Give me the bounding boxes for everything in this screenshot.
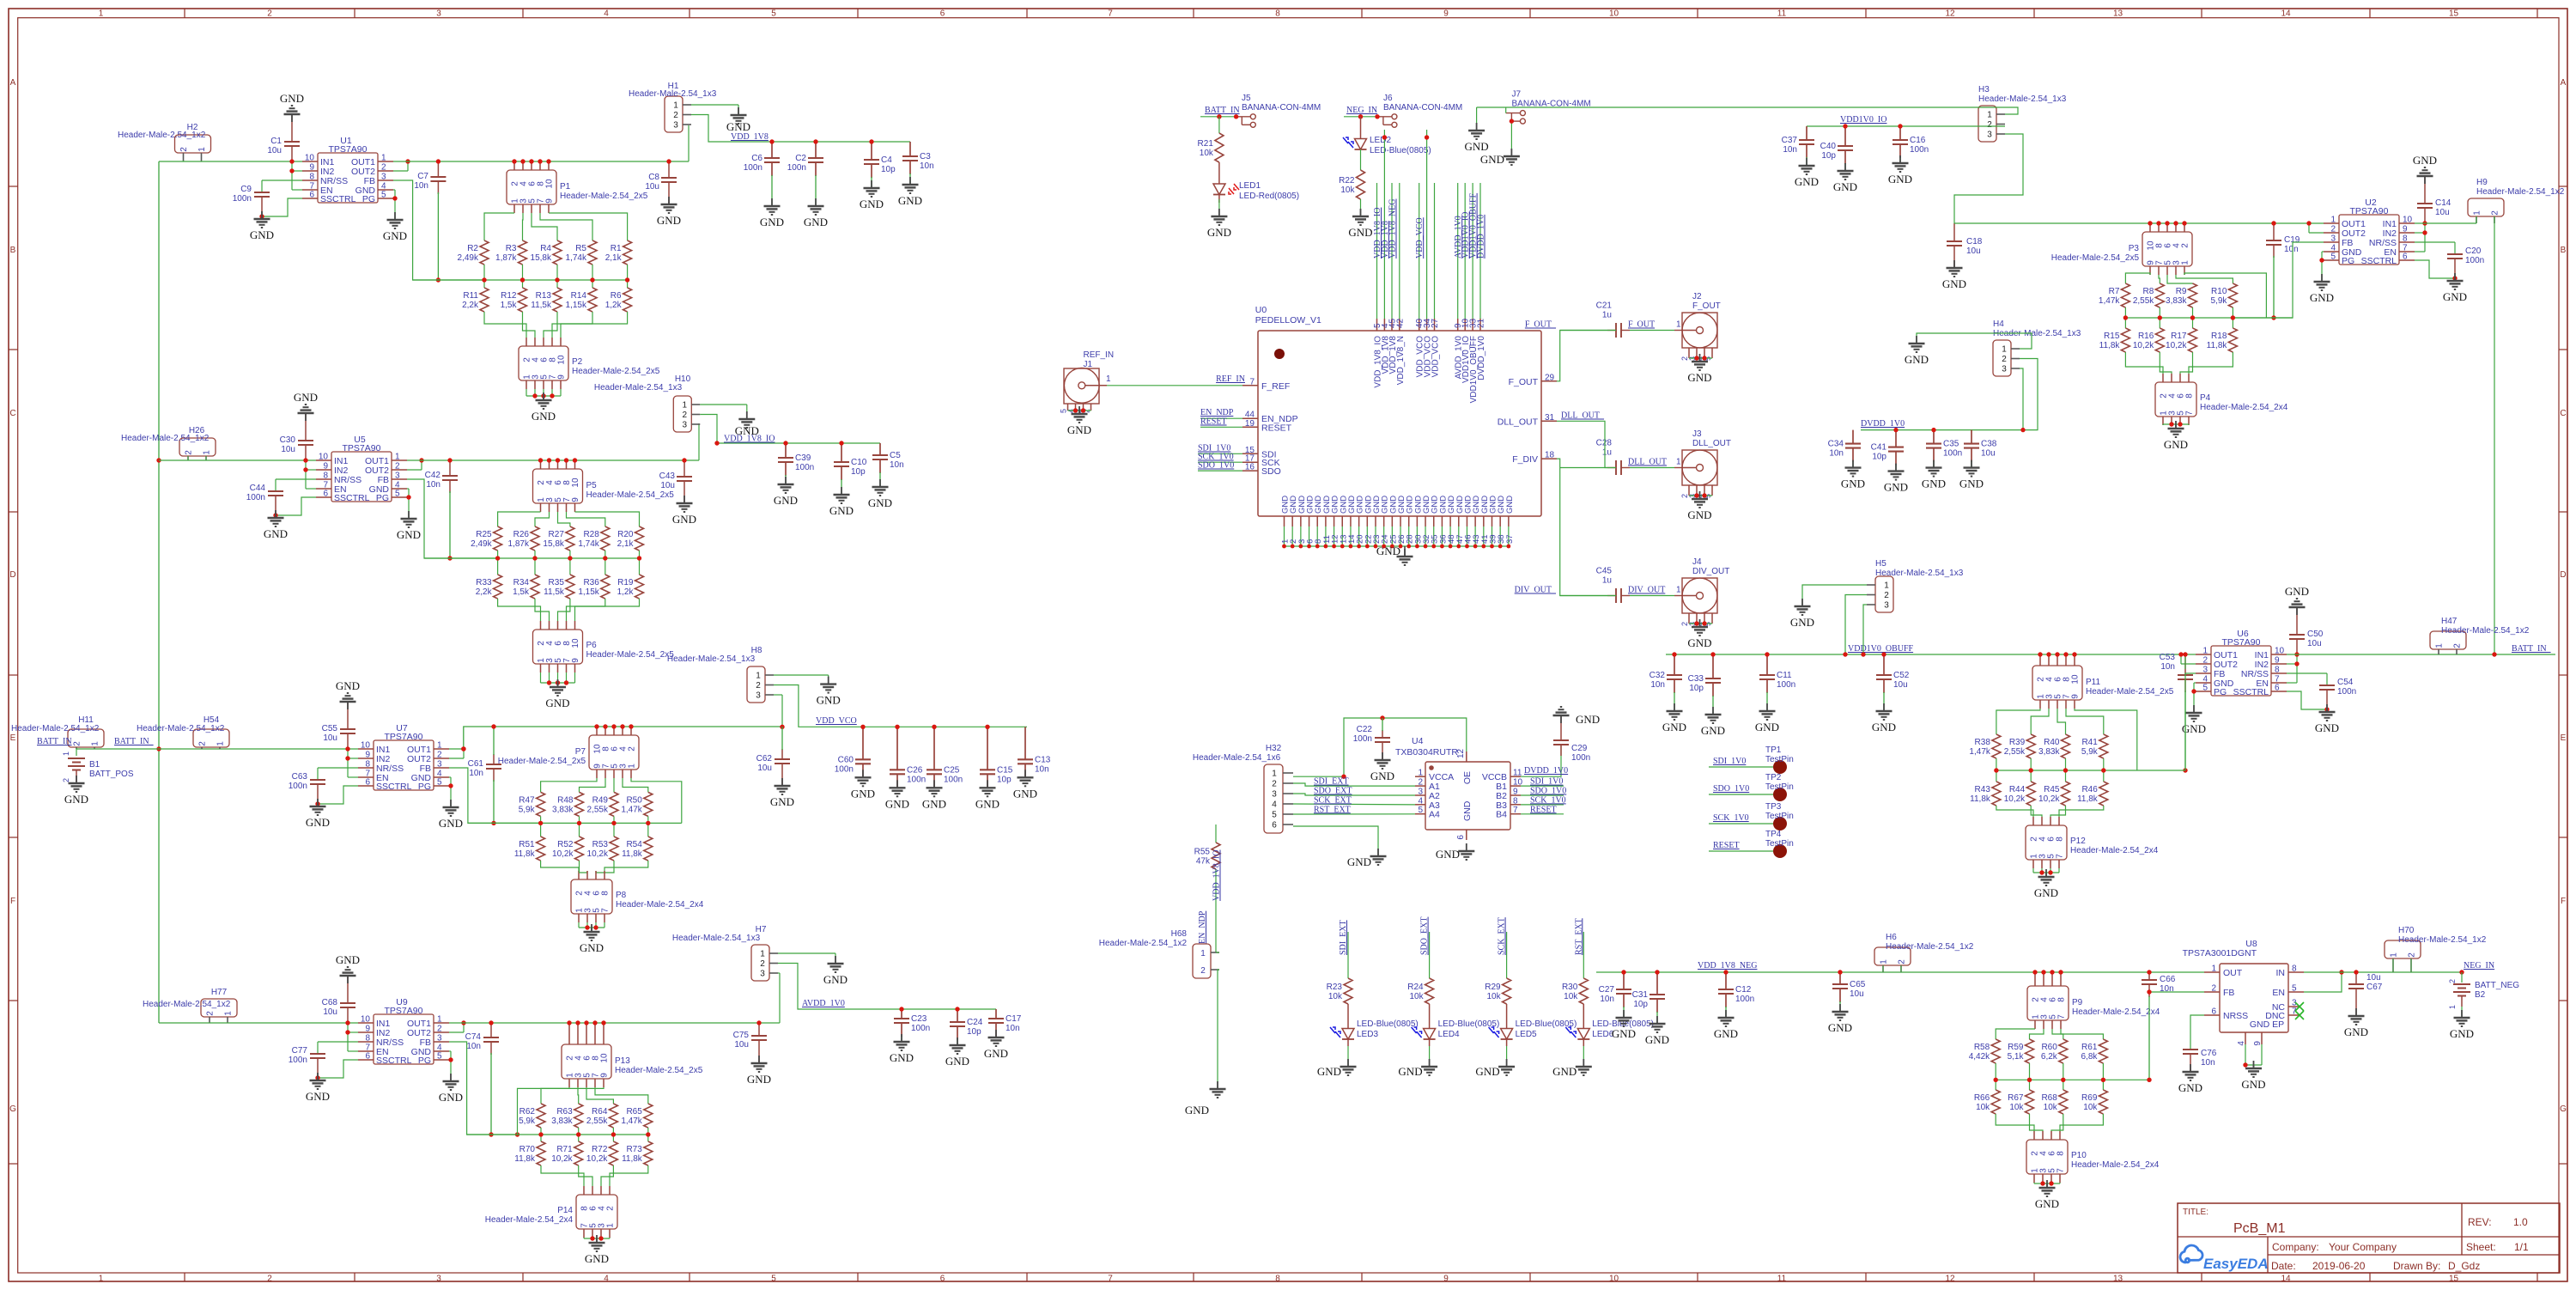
junction [2183,652,2187,656]
wire [2052,1020,2063,1039]
resistor R73 [622,1141,653,1165]
junction [2027,1078,2032,1082]
svg-text:GND: GND [1067,423,1091,436]
capacitor C40 10p [1820,126,1857,193]
svg-text:1,74k: 1,74k [566,253,587,263]
resistor R29 10k [1485,978,1510,1004]
wire [276,479,316,491]
svg-text:Your Company: Your Company [2329,1241,2397,1253]
svg-text:29: 29 [1545,373,1555,382]
svg-text:1u: 1u [1602,448,1612,458]
ground [532,392,556,423]
wire [613,816,615,837]
svg-text:1,47k: 1,47k [1969,747,1990,757]
svg-text:F_OUT_: F_OUT_ [1525,320,1557,330]
svg-text:C10: C10 [851,458,867,467]
ground [1687,619,1711,649]
wire [605,551,606,575]
svg-text:10: 10 [2071,674,2081,685]
capacitor C2 100n [787,142,828,228]
wire [575,599,640,630]
net label SCK_1V0 [1198,453,1234,462]
wire [2163,417,2189,425]
svg-text:1: 1 [2002,345,2007,355]
svg-text:GND: GND [823,973,848,986]
svg-text:VDD_1V8: VDD_1V8 [731,132,769,142]
svg-text:SCK_EXT: SCK_EXT [1314,795,1352,805]
wire [484,312,526,346]
header P12 Header-Male-2.54_2x4 [2026,825,2159,860]
svg-text:SDI_1V0: SDI_1V0 [1713,757,1746,766]
capacitor C5 10n [868,443,904,509]
svg-text:1: 1 [673,101,678,111]
wire [2060,972,2062,986]
svg-text:3: 3 [673,121,678,131]
wire [778,953,835,964]
wire [1347,932,1349,978]
svg-text:11,8k: 11,8k [514,849,536,859]
junction [899,1007,903,1011]
svg-text:GND: GND [760,216,784,228]
svg-text:10n: 10n [466,1042,481,1051]
svg-text:3,83k: 3,83k [551,1117,573,1126]
junction [568,556,572,560]
svg-text:TPS7A90: TPS7A90 [385,1006,423,1016]
svg-text:GND: GND [280,92,304,105]
svg-text:GND: GND [1701,724,1725,737]
svg-text:C19: C19 [2284,235,2300,245]
svg-text:11,8k: 11,8k [2207,341,2228,350]
wire [2194,683,2196,713]
svg-text:LED3: LED3 [1357,1030,1378,1039]
svg-text:GND: GND [1872,721,1896,733]
wire [535,503,550,526]
wire [1510,121,1512,155]
svg-text:R15: R15 [2104,332,2120,341]
svg-text:9: 9 [571,658,580,663]
wire [1996,758,1997,782]
svg-text:B: B [2561,246,2567,255]
svg-text:GND: GND [1795,175,1819,188]
net label REF_IN [1216,374,1245,384]
svg-text:10u: 10u [1893,680,1908,690]
svg-text:SDI_1V0: SDI_1V0 [1530,777,1563,787]
header P8 Header-Male-2.54_2x4 [571,879,704,914]
svg-text:1: 1 [1880,959,1889,964]
svg-text:H47: H47 [2441,617,2458,626]
svg-text:C8: C8 [648,173,659,182]
junction [769,139,774,143]
wire feedback mid node [2125,317,2293,319]
ground [585,1235,609,1265]
ground [280,92,304,122]
wire [498,503,541,526]
capacitor C39 100n [774,443,814,507]
ground [383,212,407,242]
svg-text:1,87k: 1,87k [495,253,517,263]
svg-text:D: D [2560,570,2566,580]
capacitor C33 10p [1688,654,1725,737]
svg-text:11,5k: 11,5k [531,301,552,310]
wire [1521,794,1564,796]
svg-text:GND: GND [250,228,274,241]
svg-text:C37: C37 [1782,136,1798,145]
svg-text:8: 8 [1275,9,1280,19]
junction [482,277,486,282]
wire [548,161,550,170]
svg-text:10: 10 [319,453,329,462]
svg-text:C77: C77 [292,1046,308,1056]
wire [580,861,588,879]
junction [611,1132,616,1136]
junction [611,724,616,728]
junction [590,277,594,282]
resistor R72 [586,1141,617,1165]
svg-text:6: 6 [940,9,945,19]
svg-text:GND: GND [2315,721,2339,734]
svg-text:GND: GND [922,797,946,810]
svg-text:VDD1V0_IO: VDD1V0_IO [1840,115,1886,125]
wire IN bus right to H47 [2287,654,2555,655]
wire [2057,654,2058,666]
svg-text:2: 2 [1200,966,1206,976]
junction [646,1132,650,1136]
wire DLL_OUT [1557,421,1616,467]
capacitor C37 10n [1782,126,1819,188]
svg-text:C38: C38 [1981,440,1997,449]
svg-text:R55: R55 [1194,848,1211,857]
junction [2173,221,2178,225]
junction [1341,775,1346,779]
svg-text:GND: GND [1922,478,1946,490]
svg-text:P8: P8 [616,891,627,900]
regulator U9 TPS7A90 [358,997,449,1066]
header P6 Header-Male-2.54_2x5 [533,630,675,664]
svg-text:VDD_VCO: VDD_VCO [1431,336,1441,378]
svg-text:GND: GND [1942,277,1966,290]
svg-text:TP4: TP4 [1765,830,1782,839]
capacitor C41 10p [1871,430,1908,494]
wire feedback mid node [467,1134,648,1135]
net label DLL_OUT_ [1561,411,1605,421]
wire [2051,972,2053,986]
wire [594,1023,596,1044]
svg-text:DLL_OUT: DLL_OUT [1628,458,1667,467]
capacitor C60 100n [835,727,875,800]
ground [545,679,569,709]
net label SDO_1V0 [1713,784,1749,794]
ground [1790,599,1814,629]
junction [345,746,349,751]
svg-text:TestPin: TestPin [1765,755,1794,764]
svg-text:R68: R68 [2041,1093,2057,1103]
svg-text:6: 6 [1272,821,1277,831]
svg-text:10n: 10n [2160,662,2175,672]
svg-text:1: 1 [99,1275,104,1284]
svg-text:C5: C5 [890,451,901,460]
wire DIV_OUT [1557,459,1616,595]
wire [1216,952,1219,953]
svg-text:1,15k: 1,15k [566,301,587,310]
svg-text:10u: 10u [2435,208,2450,217]
svg-text:R1: R1 [611,244,622,253]
wire [1680,348,1712,361]
svg-text:GND: GND [1645,1033,1669,1046]
svg-text:J2: J2 [1692,292,1702,301]
capacitor C24 10p [945,1009,983,1068]
header H5 Header-Male-2.54_1x3 [1867,559,1964,612]
net label BATT_IN_ [2512,644,2552,654]
svg-text:TPS7A3001DGNT: TPS7A3001DGNT [2183,948,2257,958]
svg-text:Header-Male-2.54_1x2: Header-Male-2.54_1x2 [1099,939,1188,948]
net label NEG_IN [1346,106,1377,115]
ground [1376,545,1413,565]
svg-text:1: 1 [1676,458,1681,467]
svg-text:10u: 10u [323,733,337,743]
svg-text:R2: R2 [467,244,478,253]
svg-text:1: 1 [1418,769,1423,778]
junction [598,1236,603,1240]
junction [447,556,452,560]
svg-text:1: 1 [2330,216,2336,225]
svg-text:REF_IN: REF_IN [1216,374,1245,384]
wire EN to IN [2304,972,2342,992]
junction [1881,652,1886,656]
svg-text:5: 5 [1272,811,1277,820]
junction [585,925,589,929]
wire [575,503,640,526]
capacitor C38 10u [1959,430,1997,490]
svg-text:2,49k: 2,49k [471,539,492,549]
svg-text:Header-Male-2.54_1x2: Header-Male-2.54_1x2 [1886,942,1974,952]
junction [1382,135,1387,139]
junction [315,801,319,806]
wire [318,786,358,804]
svg-text:2: 2 [2330,225,2336,234]
regulator U7 TPS7A90 [358,723,449,792]
svg-text:GND: GND [1662,721,1686,733]
svg-text:10p: 10p [1633,1000,1648,1009]
svg-text:Header-Male-2.54_1x3: Header-Male-2.54_1x3 [667,654,756,664]
svg-text:1: 1 [91,741,100,746]
junction [2459,970,2464,974]
svg-text:P6: P6 [586,641,598,650]
net label F_OUT [1628,320,1655,330]
wire [1429,1046,1431,1067]
svg-text:R67: R67 [2008,1093,2024,1103]
svg-text:1,2k: 1,2k [605,301,623,310]
svg-text:VDD_VCO: VDD_VCO [816,716,857,726]
svg-text:3: 3 [381,173,386,182]
svg-text:P10: P10 [2071,1151,2087,1160]
junction [577,821,581,825]
net label SCK_1V0 [1713,813,1749,823]
svg-text:P4: P4 [2200,393,2211,403]
net label RST_EXT [1314,805,1351,814]
svg-text:BATT_IN: BATT_IN [1205,106,1240,115]
svg-text:42: 42 [1395,318,1405,328]
wire [558,599,570,630]
net label DVDD_1V0 [1524,766,1568,776]
svg-text:R6: R6 [611,291,622,301]
svg-text:5: 5 [2202,684,2208,693]
svg-text:9: 9 [365,1025,370,1034]
svg-text:9: 9 [1443,1275,1449,1284]
svg-text:R70: R70 [519,1145,536,1154]
svg-text:R73: R73 [626,1145,642,1154]
svg-text:J6: J6 [1383,94,1393,103]
junction [2294,652,2299,656]
wire [1583,932,1584,978]
connector J1 REF_IN SMA [1064,350,1114,404]
svg-text:10u: 10u [323,1007,337,1017]
resistor R63 [551,1104,582,1128]
svg-text:GND: GND [1884,481,1908,494]
net label BATT_IN [1205,106,1240,115]
junction [611,821,616,825]
svg-text:C43: C43 [659,472,676,481]
svg-text:F: F [2561,897,2566,906]
resistor R7 [2099,283,2129,307]
svg-text:C65: C65 [1850,980,1866,989]
svg-text:2: 2 [628,746,637,751]
wire [540,1128,542,1141]
svg-text:H6: H6 [1886,933,1897,942]
svg-text:GND: GND [885,797,909,810]
svg-text:TPS7A90: TPS7A90 [343,443,381,453]
junction [461,746,465,751]
svg-text:C30: C30 [280,435,296,445]
junction [646,821,650,825]
svg-text:Header-Male-2.54_1x2: Header-Male-2.54_1x2 [143,1000,231,1009]
svg-text:GND: GND [672,513,696,526]
regulator U6 TPS7A90 [2196,629,2287,697]
svg-text:C54: C54 [2337,678,2354,687]
wire [584,1229,610,1238]
svg-text:100n: 100n [2337,687,2356,697]
svg-text:BANANA-CON-4MM: BANANA-CON-4MM [1383,103,1462,113]
junction [2169,422,2173,426]
svg-text:10k: 10k [1486,992,1501,1001]
junction [573,458,577,462]
net label EN_NDP [1198,910,1207,944]
wire DVDD_1V0 rail [1861,429,1978,431]
svg-text:C11: C11 [1777,671,1792,680]
svg-text:10n: 10n [1783,145,1797,155]
svg-text:GND: GND [1185,1104,1209,1117]
resistor R45 [2038,782,2069,806]
battery B2 BATT_NEG [2448,972,2519,1009]
svg-text:GND: GND [1552,1065,1577,1078]
svg-text:GND: GND [1959,478,1984,490]
ground [439,800,463,830]
wire [596,727,598,735]
wire [700,405,747,418]
ground [2035,1180,2059,1210]
svg-text:GND: GND [1612,1027,1636,1040]
svg-text:B4: B4 [1496,810,1507,820]
wire [579,914,605,928]
svg-text:R13: R13 [536,291,552,301]
wire [2059,806,2104,825]
svg-text:Header-Male-2.54_1x2: Header-Male-2.54_1x2 [2476,187,2565,197]
svg-text:2: 2 [2202,656,2208,666]
svg-text:A: A [2561,78,2567,88]
svg-text:R63: R63 [556,1107,573,1117]
wire [2065,654,2067,666]
svg-text:10k: 10k [2044,1103,2058,1112]
ground [817,677,841,707]
wire [2031,806,2042,825]
wire [577,1079,580,1104]
wire F_OUT [1557,331,1616,381]
svg-text:8: 8 [323,472,328,481]
svg-text:DLL_OUT: DLL_OUT [1498,417,1539,427]
svg-text:GND: GND [1888,173,1912,186]
junction [303,467,307,472]
svg-text:B1: B1 [89,760,100,770]
svg-text:9: 9 [1513,788,1518,797]
wire [2159,266,2160,283]
ground [1687,491,1711,521]
ground [2178,1064,2202,1094]
svg-text:R72: R72 [592,1145,608,1154]
svg-text:GND: GND [336,953,360,966]
svg-text:SDO_1V0: SDO_1V0 [1530,787,1566,796]
svg-text:2,1k: 2,1k [605,253,623,263]
svg-text:R46: R46 [2081,785,2098,794]
svg-text:2: 2 [1272,780,1277,789]
wire [579,1165,592,1195]
wire VDD_1V8 rail [691,115,910,143]
resistor R5 [566,240,597,265]
svg-text:TPS7A90: TPS7A90 [385,732,423,742]
svg-text:2: 2 [1898,959,1907,964]
net label SDI_EXT [1339,920,1348,955]
svg-text:1,47k: 1,47k [2099,296,2120,306]
svg-text:NEG_IN: NEG_IN [1346,106,1377,115]
svg-text:H3: H3 [1978,85,1990,94]
svg-text:SSCTRL: SSCTRL [2233,687,2269,697]
svg-text:2: 2 [760,959,765,969]
junction [2123,315,2128,319]
resistor R38 [1969,734,2000,758]
ground [439,1074,463,1104]
svg-text:GND: GND [2450,1027,2474,1040]
svg-text:7: 7 [2185,411,2195,416]
svg-text:8: 8 [601,891,611,896]
wire [540,204,592,240]
junction [289,159,294,163]
svg-text:10n: 10n [920,161,934,171]
wire [2125,352,2163,382]
LED LED5 LED-Blue(0805) [1489,1004,1577,1046]
wire [567,503,605,526]
junction [2032,970,2037,974]
svg-text:R34: R34 [513,578,530,587]
wire U0 ground bus [1282,545,1510,549]
svg-text:1: 1 [628,764,637,769]
svg-text:10k: 10k [1409,992,1424,1001]
junction [2061,1078,2065,1082]
wire [484,204,514,240]
svg-text:P2: P2 [572,357,583,367]
wire [1218,970,1219,1089]
wire [531,161,532,170]
svg-text:2: 2 [1987,120,1992,130]
resistor R34 [513,575,539,599]
svg-text:C28: C28 [1596,439,1613,448]
